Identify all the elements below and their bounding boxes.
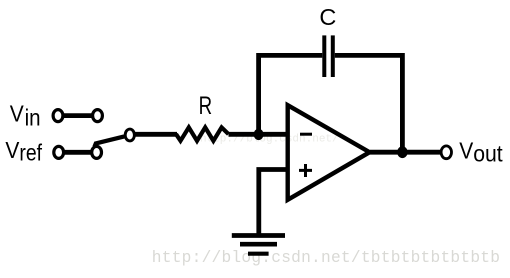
wire Vin contact link: [58, 113, 98, 118]
op-amp U1: [288, 105, 370, 200]
wire inverting node up and to capacitor left: [259, 55, 323, 134]
svg-text:in: in: [25, 105, 41, 131]
capacitor C right plate: [331, 35, 335, 77]
terminal Vref right: [92, 146, 102, 158]
terminal Vref left: [54, 146, 64, 158]
ground bar 3: [248, 252, 269, 256]
wire op-amp output: [370, 150, 440, 155]
svg-text:V: V: [459, 138, 474, 164]
svg-text:out: out: [473, 141, 503, 167]
wire capacitor right to output node: [335, 55, 403, 152]
ground bar 2: [240, 242, 277, 247]
svg-text:http://blog.csdn.net/tbtbtbtbt: http://blog.csdn.net/tbtbtbtbtbtbtb: [152, 249, 500, 267]
node junction at output: [397, 146, 407, 158]
op-amp inverting pin label: [300, 133, 312, 136]
svg-text:C: C: [319, 4, 336, 30]
capacitor C left plate: [322, 35, 326, 77]
wire non-inverting input to ground: [259, 170, 289, 235]
switch SW1 pole contact: [125, 129, 134, 141]
wire Vref contact link: [59, 150, 97, 155]
terminal Vin left: [53, 110, 63, 122]
node junction at inverting input: [254, 129, 264, 140]
terminal Vin right: [93, 110, 103, 122]
ground bar 1: [232, 233, 285, 238]
resistor R: [176, 127, 229, 140]
svg-text:V: V: [10, 100, 25, 126]
switch SW1 blade: [94, 136, 124, 147]
svg-text:ref: ref: [19, 139, 42, 165]
op-amp non-inverting pin label: [299, 164, 312, 177]
svg-text:R: R: [199, 92, 213, 120]
svg-text:V: V: [5, 137, 20, 163]
wire pole to resistor: [135, 132, 178, 137]
wire resistor to op-amp inverting input: [229, 132, 290, 137]
terminal Vout: [441, 146, 451, 159]
